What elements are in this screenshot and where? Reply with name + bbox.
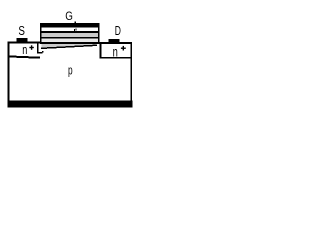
svg-text:p: p (68, 64, 73, 78)
svg-text:G: G (65, 10, 73, 23)
svg-text:S: S (18, 25, 25, 38)
svg-text:n: n (22, 44, 27, 58)
svg-text:n: n (113, 44, 118, 60)
svg-text:D: D (115, 24, 121, 38)
